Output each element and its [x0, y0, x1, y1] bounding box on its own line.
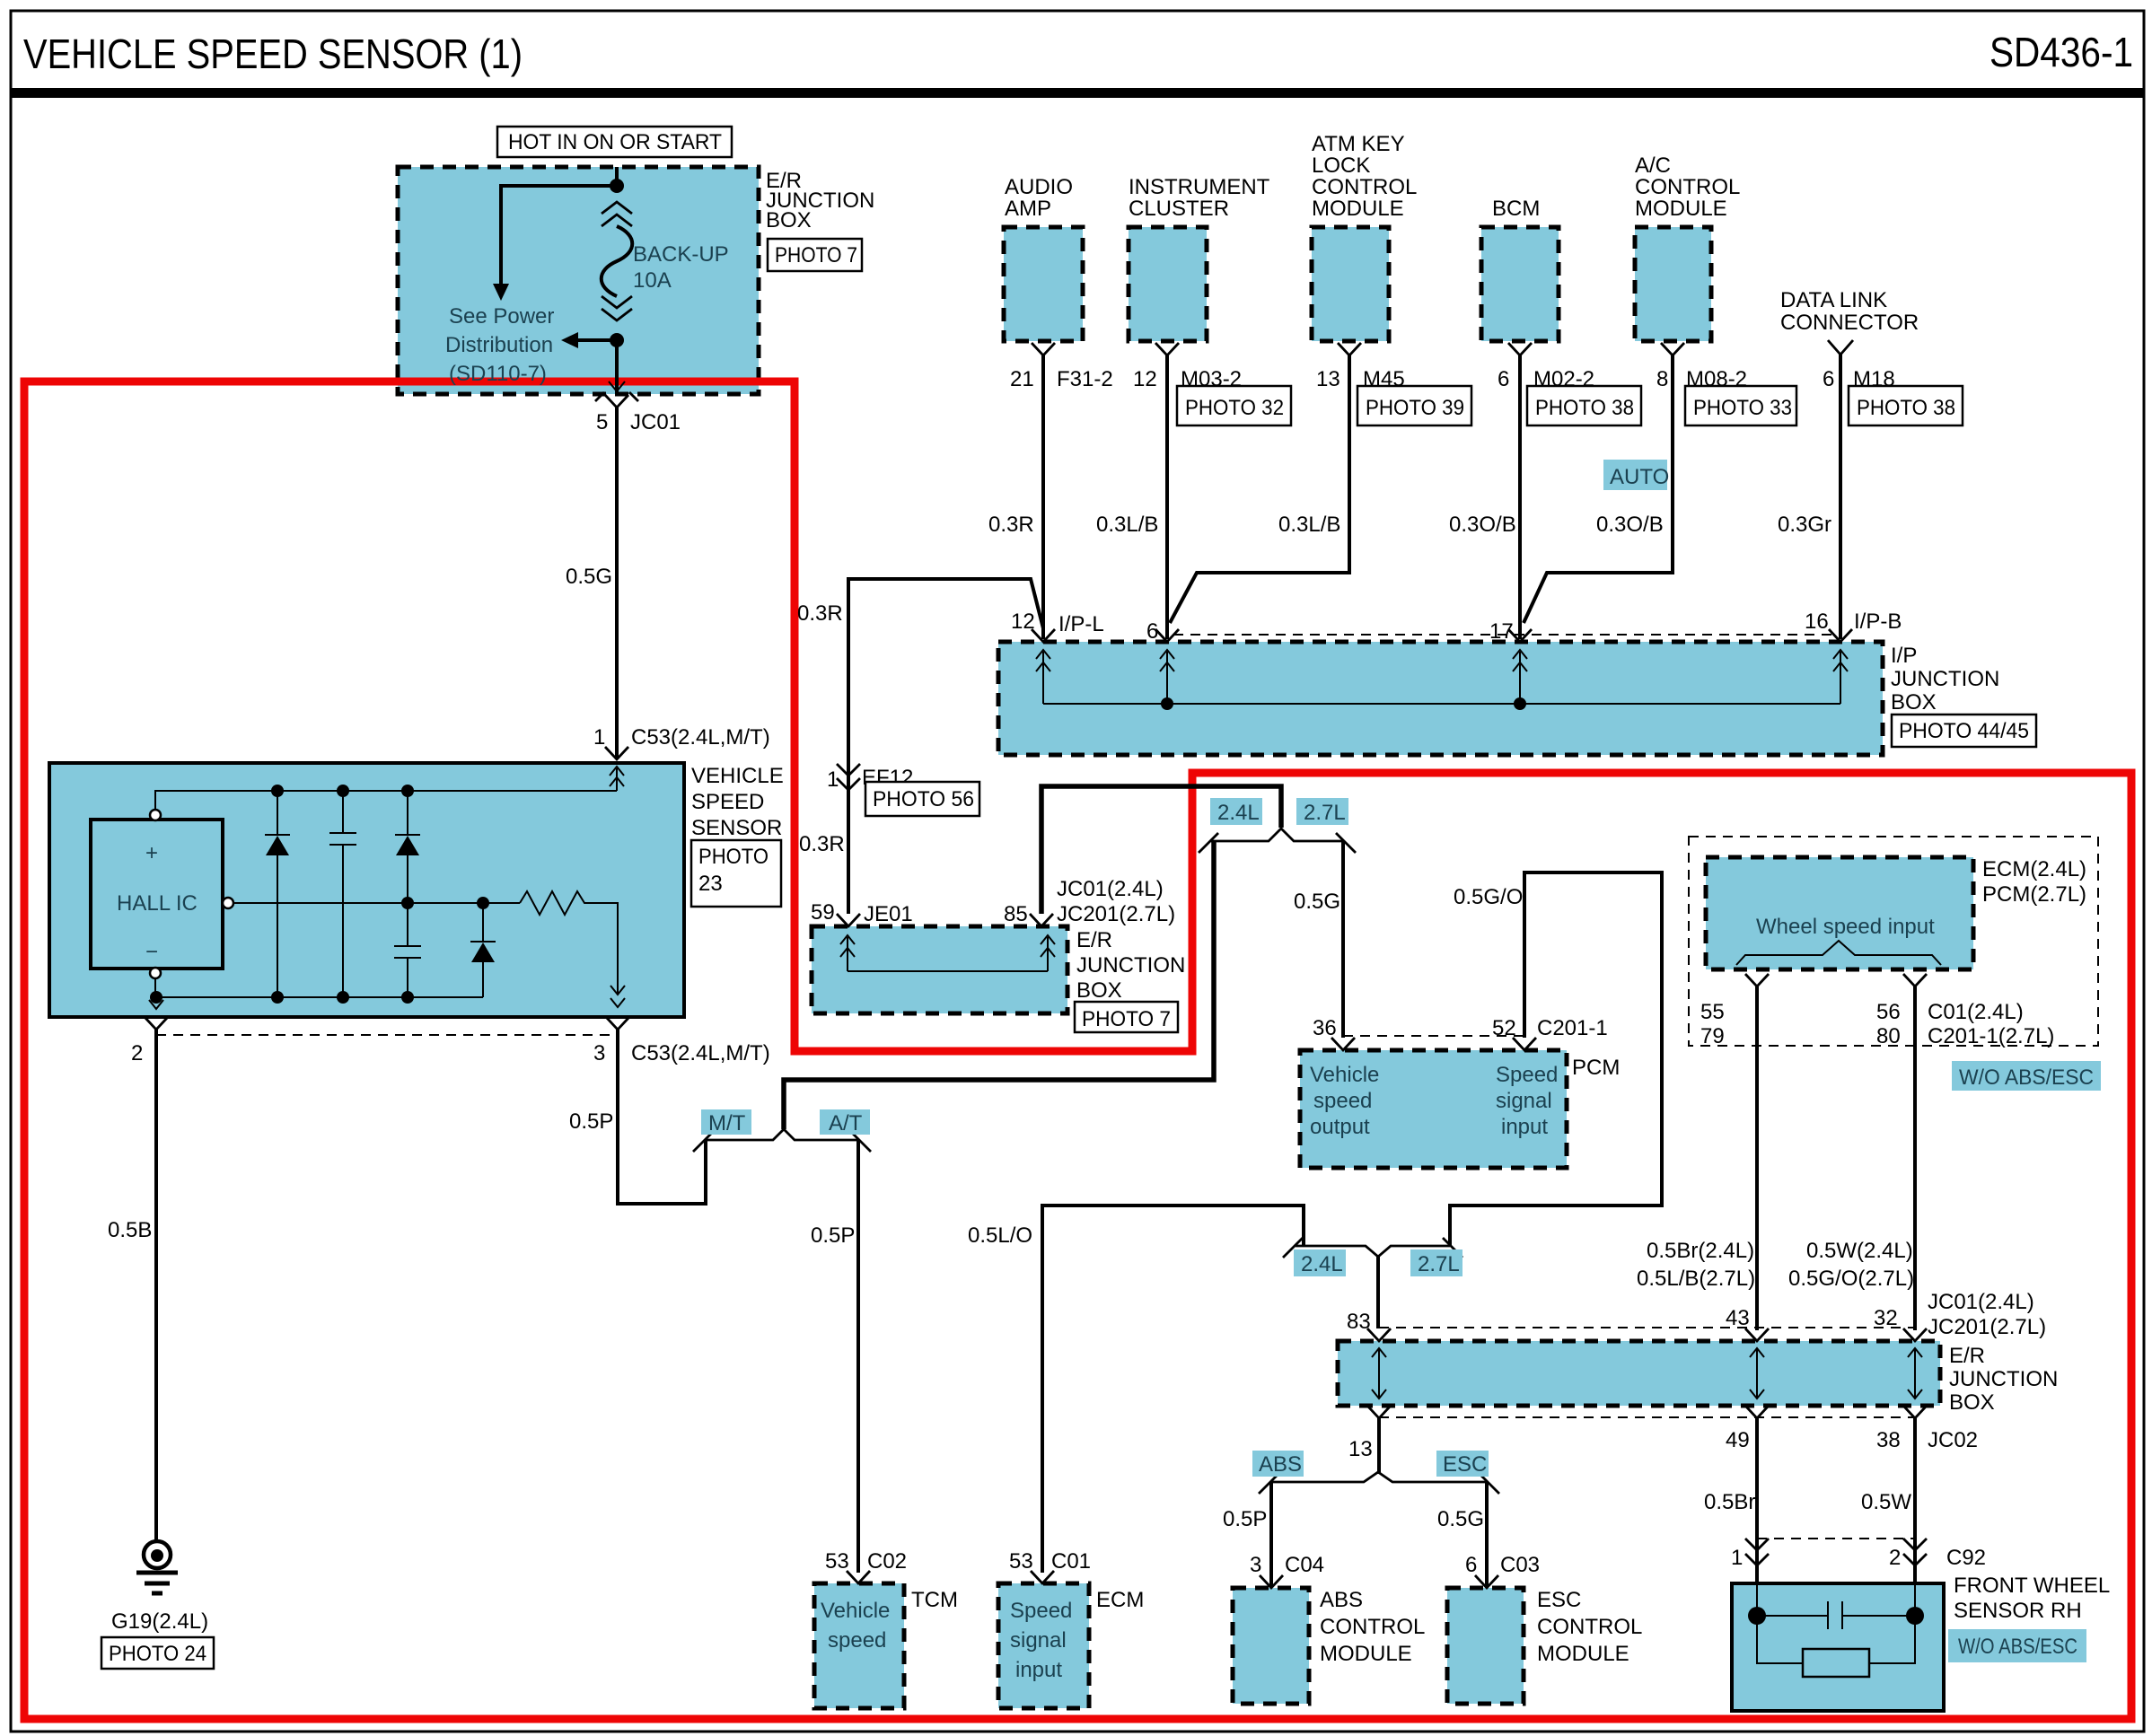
svg-text:0.5L/O: 0.5L/O	[968, 1223, 1032, 1248]
connector 52 C201-1	[1513, 1038, 1536, 1050]
2.4L label (upper)	[1210, 798, 1262, 825]
svg-text:53: 53	[1009, 1549, 1033, 1574]
ESC label	[1436, 1451, 1489, 1477]
svg-text:CONNECTOR: CONNECTOR	[1780, 311, 1919, 335]
svg-text:0.3R: 0.3R	[988, 513, 1034, 537]
svg-text:BOX: BOX	[766, 208, 812, 232]
connector 5 JC01	[605, 395, 628, 408]
svg-text:BCM: BCM	[1492, 197, 1540, 221]
svg-text:1: 1	[827, 767, 839, 792]
instrument cluster box	[1129, 227, 1207, 341]
svg-text:PHOTO 32: PHOTO 32	[1185, 396, 1284, 420]
svg-text:6: 6	[1146, 619, 1158, 644]
audio amp connector 21 F31-2	[1032, 343, 1055, 355]
brace under wheel speed input	[1736, 941, 1941, 965]
svg-text:MODULE: MODULE	[1320, 1642, 1412, 1666]
connector 32	[1903, 1328, 1927, 1341]
TCM box	[814, 1583, 904, 1708]
svg-text:input: input	[1501, 1115, 1548, 1139]
svg-text:ESC: ESC	[1537, 1588, 1581, 1612]
connector 83	[1367, 1328, 1391, 1341]
capacitor C1	[342, 791, 344, 833]
E/R junction box (top)	[398, 167, 759, 394]
svg-text:+: +	[145, 841, 158, 865]
capacitor in sensor	[1757, 1615, 1915, 1617]
svg-text:JC201(2.7L): JC201(2.7L)	[1928, 1315, 2046, 1339]
wire 0.5Br to sensor	[1755, 1418, 1759, 1562]
wire to power distribution	[501, 186, 617, 285]
PHOTO 56 box	[865, 782, 979, 816]
svg-text:13: 13	[1316, 367, 1340, 391]
svg-text:PHOTO 33: PHOTO 33	[1693, 396, 1792, 420]
top rail wire	[155, 791, 617, 810]
wire 0.5P A/T to TCM	[856, 1140, 860, 1573]
svg-text:ATM KEY: ATM KEY	[1312, 132, 1405, 156]
svg-text:C53(2.4L,M/T): C53(2.4L,M/T)	[631, 725, 770, 750]
svg-text:49: 49	[1726, 1428, 1750, 1452]
I/P connector 17	[1508, 629, 1532, 642]
svg-text:C01(2.4L): C01(2.4L)	[1928, 1000, 2024, 1024]
svg-text:A/C: A/C	[1635, 153, 1671, 178]
svg-text:A/T: A/T	[829, 1111, 863, 1135]
svg-text:E/R: E/R	[1076, 928, 1112, 952]
svg-text:CONTROL: CONTROL	[1312, 175, 1417, 199]
svg-text:PHOTO 56: PHOTO 56	[873, 787, 974, 811]
PHOTO 23 box	[691, 840, 781, 907]
2.4L label	[1294, 1249, 1346, 1276]
svg-text:80: 80	[1876, 1024, 1901, 1048]
ABS control module box	[1233, 1588, 1309, 1704]
svg-text:0.3L/B: 0.3L/B	[1278, 513, 1340, 537]
svg-text:C92: C92	[1946, 1546, 1986, 1570]
svg-text:C53(2.4L,M/T): C53(2.4L,M/T)	[631, 1041, 770, 1065]
svg-text:LOCK: LOCK	[1312, 153, 1370, 178]
wire stub left with arrow	[576, 338, 617, 342]
svg-text:10A: 10A	[633, 268, 672, 293]
svg-text:JC201(2.7L): JC201(2.7L)	[1057, 902, 1175, 926]
HOT IN ON OR START box	[497, 127, 732, 157]
svg-text:input: input	[1015, 1658, 1062, 1682]
wire 0.5B to ground	[154, 1030, 158, 1540]
pin middle terminal circle	[223, 898, 233, 908]
svg-text:36: 36	[1313, 1016, 1337, 1040]
svg-text:6: 6	[1823, 367, 1834, 391]
svg-text:C04: C04	[1285, 1553, 1324, 1577]
diode D1	[277, 791, 278, 835]
atm connector 13 M45	[1338, 343, 1361, 355]
connector dashed line C53	[156, 1034, 618, 1036]
connector 2 C92	[1903, 1539, 1927, 1565]
svg-text:signal: signal	[1010, 1628, 1067, 1653]
13 wire to ABS/ESC split	[1377, 1418, 1381, 1474]
wire 0.3L/B atm to I/P 6	[1170, 355, 1349, 623]
svg-text:1: 1	[593, 725, 605, 750]
wire 0.5G to sensor	[615, 408, 619, 758]
atm key lock control module box	[1312, 227, 1389, 341]
svg-text:(SD110-7): (SD110-7)	[449, 362, 547, 386]
capacitor C2	[394, 945, 421, 947]
svg-text:BOX: BOX	[1076, 978, 1122, 1003]
svg-text:Speed: Speed	[1496, 1063, 1558, 1087]
I/P connector 12 I/P-L	[1032, 629, 1055, 642]
connector 2 C53	[145, 1017, 168, 1030]
svg-text:0.5L/B(2.7L): 0.5L/B(2.7L)	[1637, 1267, 1755, 1291]
svg-text:2.4L: 2.4L	[1301, 1252, 1343, 1276]
svg-text:AMP: AMP	[1005, 197, 1051, 221]
node dots on top rail	[271, 785, 284, 797]
ABS ESC option split	[1271, 1472, 1487, 1482]
wire 0.5G split to PCM 36	[1341, 841, 1345, 1038]
wire 0.5L/O ECM to split	[1042, 1206, 1304, 1573]
svg-text:ABS: ABS	[1320, 1588, 1363, 1612]
svg-text:0.5Br: 0.5Br	[1704, 1490, 1755, 1514]
svg-text:W/O ABS/ESC: W/O ABS/ESC	[1959, 1065, 2094, 1090]
ABS label	[1252, 1451, 1304, 1477]
connector 55/79	[1745, 974, 1769, 986]
svg-text:JE01: JE01	[864, 902, 913, 926]
pin3 exit arrow	[610, 986, 625, 1007]
svg-text:PHOTO 39: PHOTO 39	[1366, 396, 1464, 420]
svg-text:signal: signal	[1496, 1089, 1552, 1113]
front wheel sensor RH box	[1732, 1583, 1944, 1711]
svg-text:PHOTO 44/45: PHOTO 44/45	[1899, 719, 2029, 743]
wire 55 to 43	[1755, 986, 1759, 1330]
svg-text:0.5W: 0.5W	[1861, 1490, 1911, 1514]
connector dashed C92	[1757, 1538, 1915, 1539]
svg-text:VEHICLE: VEHICLE	[691, 764, 784, 788]
svg-text:E/R: E/R	[1949, 1344, 1985, 1368]
PHOTO 24 box	[101, 1637, 214, 1669]
A/C control module box	[1635, 227, 1711, 341]
svg-text:6: 6	[1465, 1553, 1477, 1577]
svg-text:0.5P: 0.5P	[811, 1223, 855, 1248]
svg-text:59: 59	[811, 900, 835, 925]
svg-text:PCM: PCM	[1572, 1056, 1620, 1080]
svg-text:0.5P: 0.5P	[1223, 1507, 1267, 1531]
svg-text:−: −	[145, 940, 158, 964]
svg-text:PHOTO: PHOTO	[698, 845, 769, 869]
I/P junction box	[998, 642, 1883, 755]
connector 13 below box	[1367, 1406, 1391, 1418]
bottom rail wire	[155, 978, 483, 997]
BCM box	[1481, 227, 1559, 341]
I/P option dashed line	[1173, 634, 1834, 636]
wire 0.3O/B a/c to I/P 17	[1524, 355, 1673, 623]
connector 38 JC02	[1903, 1406, 1927, 1418]
svg-text:43: 43	[1726, 1306, 1750, 1330]
ECM box	[998, 1583, 1089, 1708]
connector 49	[1745, 1406, 1769, 1418]
svg-text:PCM(2.7L): PCM(2.7L)	[1982, 882, 2086, 907]
connector 56/80 C01	[1903, 974, 1927, 986]
svg-text:85: 85	[1004, 902, 1028, 926]
E/R junction box (lower)	[1338, 1341, 1940, 1406]
connector dashed 36-52	[1343, 1035, 1524, 1037]
2.4L 2.7L upper option split	[1211, 829, 1343, 841]
svg-text:0.5G: 0.5G	[1294, 890, 1340, 914]
wire 0.3L/B cluster to I/P 6	[1165, 355, 1169, 639]
svg-text:2: 2	[1889, 1546, 1901, 1570]
svg-text:FRONT WHEEL: FRONT WHEEL	[1954, 1574, 2110, 1598]
arrow to see power distribution	[493, 284, 509, 301]
PHOTO 38 box (BCM)	[1527, 386, 1641, 425]
PHOTO 39 box	[1357, 386, 1471, 425]
wire split apex to 83	[1376, 1257, 1380, 1328]
svg-text:6: 6	[1498, 367, 1509, 391]
resistor R1	[520, 891, 618, 995]
I/P internal arrows and bus	[1036, 650, 1050, 704]
svg-text:SENSOR: SENSOR	[691, 816, 782, 840]
connector 36	[1331, 1038, 1355, 1050]
svg-text:55: 55	[1700, 1000, 1725, 1024]
svg-text:0.5G: 0.5G	[1437, 1507, 1484, 1531]
svg-text:0.5G/O: 0.5G/O	[1454, 885, 1523, 909]
audio amp box	[1004, 227, 1083, 341]
svg-text:C03: C03	[1500, 1553, 1540, 1577]
svg-text:53: 53	[825, 1549, 849, 1574]
fuse BACK-UP 10A	[602, 202, 632, 226]
pin1 exit arrow	[610, 767, 624, 791]
svg-text:2: 2	[131, 1041, 143, 1065]
svg-text:speed: speed	[1313, 1089, 1372, 1113]
ECM/PCM wheel speed input box	[1706, 857, 1973, 969]
svg-text:Vehicle: Vehicle	[1310, 1063, 1379, 1087]
2.7L label (upper)	[1296, 798, 1348, 825]
pin 2 terminal circle	[150, 968, 161, 978]
BCM connector 6 M02-2	[1508, 343, 1532, 355]
svg-text:SENSOR RH: SENSOR RH	[1954, 1599, 2082, 1623]
svg-text:PHOTO 7: PHOTO 7	[775, 243, 857, 267]
svg-text:0.3R: 0.3R	[799, 832, 845, 856]
svg-text:2.7L: 2.7L	[1304, 801, 1346, 825]
I/P connector 6	[1155, 629, 1179, 642]
A/C connector 8 M08-2	[1661, 343, 1684, 355]
pin 1 terminal circle	[150, 810, 161, 820]
wire 0.3O/B bcm to I/P 17	[1518, 355, 1522, 639]
2.7L label	[1410, 1249, 1462, 1276]
hall ic box	[91, 820, 223, 969]
connector 43	[1745, 1328, 1769, 1341]
svg-text:PHOTO 24: PHOTO 24	[109, 1642, 206, 1666]
svg-text:C201-1: C201-1	[1537, 1016, 1608, 1040]
PHOTO 38 box (DLC)	[1849, 386, 1963, 425]
cluster connector 12 M03-2	[1155, 343, 1179, 355]
svg-text:0.3R: 0.3R	[797, 601, 843, 626]
svg-text:32: 32	[1874, 1306, 1898, 1330]
connector dashed 83-43-32	[1379, 1327, 1915, 1328]
svg-text:0.3L/B: 0.3L/B	[1096, 513, 1158, 537]
junction dot	[610, 179, 624, 193]
PHOTO 32 box	[1177, 386, 1291, 425]
svg-text:17: 17	[1489, 619, 1514, 644]
connector 3 C53	[606, 1017, 629, 1030]
svg-text:BOX: BOX	[1949, 1390, 1995, 1415]
svg-text:CONTROL: CONTROL	[1537, 1615, 1642, 1639]
svg-text:JC01(2.4L): JC01(2.4L)	[1928, 1290, 2034, 1314]
svg-text:SPEED: SPEED	[691, 790, 764, 814]
svg-text:ABS: ABS	[1259, 1452, 1302, 1477]
svg-text:M/T: M/T	[708, 1111, 746, 1135]
svg-text:JUNCTION: JUNCTION	[1076, 953, 1185, 978]
wire 0.3R audio to I/P 12	[1041, 355, 1045, 639]
wire down to JC01	[615, 340, 619, 393]
M/T label	[701, 1109, 751, 1135]
svg-text:HOT IN ON OR START: HOT IN ON OR START	[508, 130, 722, 154]
svg-text:BOX: BOX	[1891, 690, 1937, 715]
svg-text:TCM: TCM	[911, 1588, 958, 1612]
svg-text:0.3Gr: 0.3Gr	[1778, 513, 1831, 537]
svg-text:MODULE: MODULE	[1635, 197, 1727, 221]
front wheel sensor internals	[1755, 1550, 1759, 1585]
svg-text:JC01: JC01	[630, 410, 681, 434]
ESC control module box	[1447, 1588, 1524, 1704]
connector 1 C53	[605, 747, 628, 759]
PHOTO 44/45 box	[1892, 715, 2036, 747]
connector 6 C03	[1475, 1575, 1498, 1588]
svg-text:JUNCTION: JUNCTION	[1949, 1367, 2058, 1391]
svg-text:PHOTO 38: PHOTO 38	[1857, 396, 1955, 420]
svg-text:W/O ABS/ESC: W/O ABS/ESC	[1958, 1635, 2077, 1659]
svg-text:See Power: See Power	[449, 304, 554, 329]
svg-text:83: 83	[1347, 1310, 1371, 1334]
wire from hot feed	[615, 167, 619, 190]
svg-text:5: 5	[596, 410, 608, 434]
svg-text:0.5Br(2.4L): 0.5Br(2.4L)	[1647, 1239, 1754, 1263]
vehicle speed sensor box	[49, 763, 684, 1017]
svg-text:21: 21	[1010, 367, 1034, 391]
title rule	[11, 88, 2144, 98]
2.4L 2.7L lower option split	[1296, 1246, 1450, 1257]
svg-text:HALL IC: HALL IC	[117, 891, 198, 916]
svg-text:VEHICLE SPEED SENSOR (1): VEHICLE SPEED SENSOR (1)	[23, 31, 523, 77]
svg-text:0.3O/B: 0.3O/B	[1449, 513, 1516, 537]
svg-text:38: 38	[1876, 1428, 1901, 1452]
svg-text:JUNCTION: JUNCTION	[1891, 667, 1999, 691]
svg-text:BACK-UP: BACK-UP	[633, 242, 729, 267]
svg-text:INSTRUMENT: INSTRUMENT	[1129, 175, 1270, 199]
svg-text:1: 1	[1731, 1546, 1743, 1570]
svg-text:MODULE: MODULE	[1537, 1642, 1629, 1666]
svg-text:MODULE: MODULE	[1312, 197, 1404, 221]
svg-text:13: 13	[1348, 1437, 1373, 1461]
svg-text:C01: C01	[1051, 1549, 1091, 1574]
svg-text:CLUSTER: CLUSTER	[1129, 197, 1229, 221]
svg-text:0.5W(2.4L): 0.5W(2.4L)	[1806, 1239, 1913, 1263]
svg-text:Wheel speed input: Wheel speed input	[1756, 915, 1935, 939]
svg-text:3: 3	[1250, 1553, 1261, 1577]
I/P connector 16 I/P-B	[1829, 629, 1852, 642]
E/R middle internal arrows	[840, 935, 855, 971]
connector 85 JC01/JC201	[1030, 914, 1053, 926]
connector 59 JE01	[837, 914, 860, 926]
svg-text:CONTROL: CONTROL	[1635, 175, 1740, 199]
svg-text:2.4L: 2.4L	[1217, 801, 1260, 825]
svg-text:ESC: ESC	[1443, 1452, 1487, 1477]
svg-text:ECM: ECM	[1096, 1588, 1144, 1612]
svg-text:3: 3	[593, 1041, 605, 1065]
connector 53 C01	[1031, 1571, 1054, 1583]
wire M/T split to junction	[784, 841, 1214, 1129]
svg-text:DATA LINK: DATA LINK	[1780, 288, 1887, 312]
svg-text:AUDIO: AUDIO	[1005, 175, 1073, 199]
connector dashed below box	[1379, 1416, 1915, 1418]
svg-text:12: 12	[1011, 609, 1035, 634]
svg-text:12: 12	[1133, 367, 1157, 391]
junction dot 2	[610, 333, 624, 347]
svg-text:79: 79	[1700, 1024, 1725, 1048]
PHOTO 33 box	[1685, 386, 1796, 425]
svg-text:CONTROL: CONTROL	[1320, 1615, 1425, 1639]
svg-text:JC02: JC02	[1928, 1428, 1978, 1452]
W/O ABS/ESC outer dashed box	[1689, 837, 2098, 1046]
E/R junction box (middle)	[812, 926, 1067, 1013]
svg-text:SD436-1: SD436-1	[1990, 29, 2133, 75]
wire 0.3Gr dlc to I/P 16	[1839, 355, 1842, 639]
svg-text:0.5G/O(2.7L): 0.5G/O(2.7L)	[1788, 1267, 1914, 1291]
diode D3	[482, 903, 484, 942]
PHOTO 7 box	[768, 239, 862, 271]
lower E/R internal arrows	[1372, 1348, 1386, 1398]
svg-text:output: output	[1310, 1115, 1370, 1139]
svg-text:56: 56	[1876, 1000, 1901, 1024]
svg-text:I/P-B: I/P-B	[1854, 609, 1902, 634]
AUTO label	[1603, 460, 1667, 490]
svg-text:C02: C02	[867, 1549, 907, 1574]
svg-text:0.3O/B: 0.3O/B	[1596, 513, 1664, 537]
A/T label	[820, 1109, 870, 1135]
connector 1 C92	[1745, 1539, 1769, 1565]
wire 85 up to 2.4L/2.7L split	[1041, 786, 1281, 914]
svg-text:JC01(2.4L): JC01(2.4L)	[1057, 877, 1164, 901]
svg-text:PHOTO 7: PHOTO 7	[1082, 1007, 1171, 1031]
svg-text:ECM(2.4L): ECM(2.4L)	[1982, 857, 2086, 881]
M/T A/T option split	[706, 1129, 858, 1140]
wire 0.5W to sensor	[1913, 1418, 1917, 1562]
DLC Y connector	[1828, 340, 1853, 355]
pin2 exit arrow	[149, 1000, 163, 1009]
svg-text:16: 16	[1805, 609, 1829, 634]
svg-text:0.5P: 0.5P	[569, 1109, 613, 1134]
svg-text:2.7L: 2.7L	[1418, 1252, 1460, 1276]
red highlight polygon	[24, 381, 2131, 1719]
svg-text:Speed: Speed	[1010, 1599, 1072, 1623]
middle rail wire	[233, 902, 520, 904]
ground G19	[144, 1541, 171, 1568]
svg-text:AUTO: AUTO	[1610, 465, 1669, 489]
svg-text:G19(2.4L): G19(2.4L)	[111, 1609, 208, 1634]
PCM box	[1300, 1050, 1567, 1168]
wire 2.7L branch to PCM 52	[1450, 872, 1662, 1246]
svg-text:0.5B: 0.5B	[108, 1218, 152, 1242]
svg-text:I/P-L: I/P-L	[1058, 612, 1104, 636]
svg-text:speed: speed	[828, 1628, 886, 1653]
svg-text:Distribution: Distribution	[445, 333, 553, 357]
svg-text:23: 23	[698, 872, 723, 896]
svg-text:I/P: I/P	[1891, 644, 1917, 668]
svg-text:0.5G: 0.5G	[566, 565, 612, 589]
svg-text:F31-2: F31-2	[1057, 367, 1113, 391]
connector 3 C04	[1260, 1575, 1283, 1588]
connector 1 EF12	[837, 764, 860, 790]
svg-text:PHOTO 38: PHOTO 38	[1535, 396, 1634, 420]
connector 53 C02	[847, 1571, 870, 1583]
svg-text:C201-1(2.7L): C201-1(2.7L)	[1928, 1024, 2054, 1048]
resistor in sensor	[1757, 1616, 1915, 1663]
W/O ABS/ESC label	[1952, 1061, 2101, 1091]
svg-text:8: 8	[1656, 367, 1668, 391]
PHOTO 7 box (middle)	[1075, 1002, 1178, 1032]
wire 0.5G to ESC module	[1485, 1482, 1489, 1586]
